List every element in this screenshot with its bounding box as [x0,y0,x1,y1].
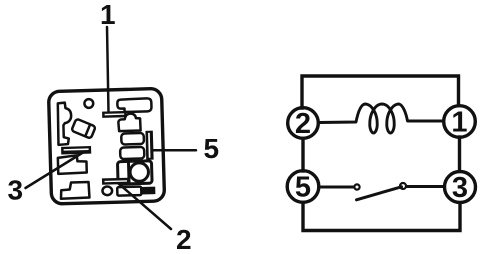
svg-text:3: 3 [452,172,468,204]
svg-text:2: 2 [176,224,192,254]
svg-text:1: 1 [451,107,467,139]
svg-text:3: 3 [8,175,24,206]
svg-text:5: 5 [204,133,220,164]
svg-text:5: 5 [295,172,311,204]
svg-text:2: 2 [295,108,311,140]
svg-text:1: 1 [100,0,116,30]
